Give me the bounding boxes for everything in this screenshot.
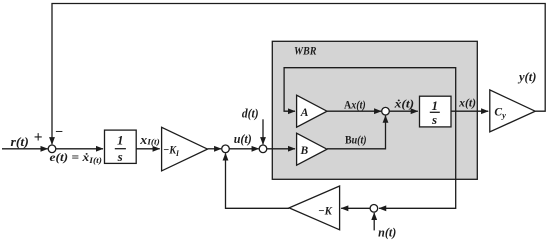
wire integrator B1 to gain -KI <box>136 148 160 150</box>
wire -K back up into S2 <box>226 153 290 208</box>
wire r(t) input into S1 <box>2 148 48 150</box>
wire inner state feedback x(t) to A <box>284 68 456 112</box>
wire n(t) noise input into S5 <box>373 213 375 231</box>
gain B (input matrix triangle) <box>297 133 327 165</box>
node summing junction S4 <box>382 107 390 115</box>
svg-text:y(t): y(t) <box>517 70 536 84</box>
wire B to S4 <box>327 116 386 149</box>
node summing junction S2 <box>222 145 230 153</box>
wire state feedback tap down to noise junction S5 <box>379 111 456 208</box>
node summing junction S1 <box>48 145 56 153</box>
wire S5 to gain -K <box>341 207 370 209</box>
wire -KI to node S2 <box>208 148 222 150</box>
wire A to node S4 <box>327 110 381 112</box>
svg-text:WBR: WBR <box>294 45 317 57</box>
svg-text:d(t): d(t) <box>242 107 259 121</box>
wire S4 to integrator block B2 <box>389 110 418 112</box>
block WBR (shaded state-space region) <box>272 41 477 179</box>
block integrator 1/s (B2) <box>420 96 452 127</box>
svg-text:−: − <box>55 125 63 140</box>
svg-text:A: A <box>300 107 309 119</box>
svg-text:u(t): u(t) <box>234 132 252 146</box>
svg-text:x(t): x(t) <box>458 95 476 109</box>
svg-text:ẋ(t): ẋ(t) <box>393 97 414 111</box>
block integrator 1/s (B1) <box>105 130 137 164</box>
gain A (state matrix triangle) <box>297 95 327 127</box>
svg-text:e(t) = ẋI(t): e(t) = ẋI(t) <box>50 150 103 165</box>
svg-text:Ax(t): Ax(t) <box>344 99 366 111</box>
gain -K (state feedback triangle, points left) <box>289 186 340 230</box>
wire d(t) disturbance input into S3 <box>262 119 264 144</box>
wire x(t) from integrator B2 to gain Cy <box>451 110 488 112</box>
svg-text:s: s <box>431 112 437 127</box>
svg-text:Bu(t): Bu(t) <box>345 135 367 147</box>
gain -KI (integral gain triangle) <box>162 127 208 171</box>
svg-text:B: B <box>300 145 309 157</box>
svg-text:r(t): r(t) <box>11 135 29 149</box>
wire S1 to integrator block B1 <box>56 148 103 150</box>
svg-text:1: 1 <box>431 98 438 113</box>
wire y(t) output feedback loop to S1 <box>52 4 545 145</box>
node summing junction S3 <box>259 145 267 153</box>
svg-text:s: s <box>117 149 123 164</box>
wire S3 into gain B <box>267 148 295 150</box>
svg-text:1: 1 <box>117 132 124 147</box>
svg-text:−K: −K <box>318 205 333 217</box>
wire S2 to node S3 <box>229 148 258 150</box>
gain Cy (output matrix triangle) <box>490 90 535 132</box>
svg-text:+: + <box>34 129 43 146</box>
node summing junction S5 (noise) <box>370 205 378 213</box>
svg-text:xI(t): xI(t) <box>139 133 160 147</box>
svg-text:n(t): n(t) <box>378 226 396 240</box>
